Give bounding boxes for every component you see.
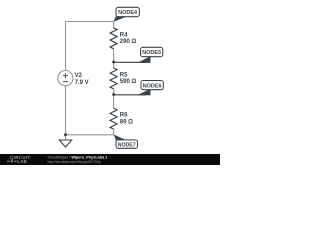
svg-text:89 Ω: 89 Ω [120,119,133,125]
junction dot node6 [112,93,115,96]
svg-text:LAB: LAB [17,159,27,164]
svg-text:290 Ω: 290 Ω [120,39,137,45]
wire left vertical [65,22,67,71]
wire right vertical segment 2 [113,49,115,68]
wire right vertical segment 4 [113,129,115,135]
wire left vertical lower [65,86,67,135]
node NODE6 flag [114,81,164,96]
junction dot node5 [112,61,115,64]
svg-text:R5: R5 [120,72,128,78]
svg-text:NODE6: NODE6 [143,83,162,89]
voltage source V2 [58,71,89,86]
resistor R4 [110,28,136,49]
node NODE4 flag [113,7,139,21]
wire top horizontal [66,21,114,23]
wire right vertical segment 3 [113,89,115,108]
svg-text:NODE5: NODE5 [142,50,161,56]
svg-text:NODE4: NODE4 [118,10,138,16]
svg-text:590 Ω: 590 Ω [120,79,137,85]
footer bar [0,154,220,165]
svg-text:CircuitWiper / Wipero_PhysLab3: CircuitWiper / Wipero_PhysLab3.1 [48,156,108,160]
svg-text:NODE7: NODE7 [118,142,136,148]
svg-text:V2: V2 [75,73,83,79]
node NODE7 flag [114,135,138,149]
resistor R6 [110,108,133,129]
wire bottom horizontal [66,134,114,136]
resistor R5 [110,68,136,89]
wire right vertical segment 1 [113,22,115,28]
svg-text:http://circuitlab.com/c/5yvgx8: http://circuitlab.com/c/5yvgx8577k5g [48,160,101,164]
svg-text:7.9 V: 7.9 V [75,80,89,86]
svg-text:R4: R4 [120,32,128,38]
ground [59,135,71,147]
junction dot at ground corner [64,133,67,136]
footer logo LAB [7,159,27,164]
svg-text:R6: R6 [120,113,128,119]
node NODE5 flag [114,47,163,63]
